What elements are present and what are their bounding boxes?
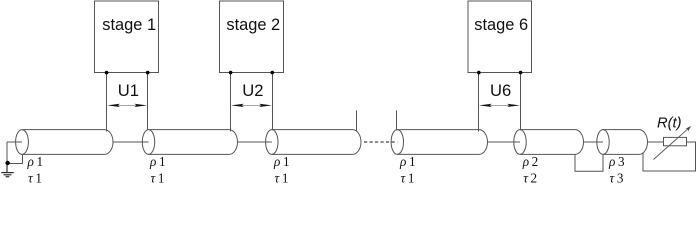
svg-text:τ1: τ1 [28,171,42,186]
svg-text:τ2: τ2 [523,171,537,186]
svg-text:U2: U2 [242,81,263,100]
svg-text:τ1: τ1 [151,171,165,186]
svg-text:R(t): R(t) [657,116,682,132]
svg-text:τ3: τ3 [610,171,624,186]
svg-text:U6: U6 [490,81,511,100]
svg-text:U1: U1 [118,81,139,100]
svg-text:τ1: τ1 [275,171,289,186]
svg-text:stage 2: stage 2 [226,16,280,34]
svg-text:stage 1: stage 1 [102,16,156,34]
svg-text:stage 6: stage 6 [474,16,528,34]
svg-text:τ1: τ1 [401,171,415,186]
